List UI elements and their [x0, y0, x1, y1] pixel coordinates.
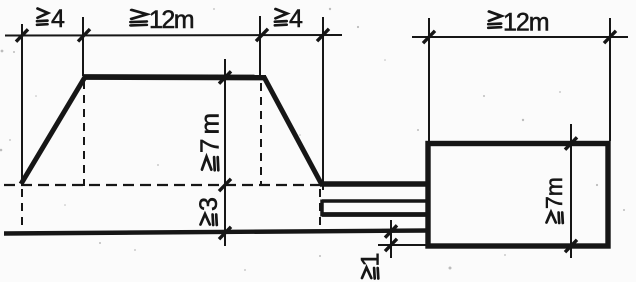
- svg-text:7m: 7m: [541, 177, 567, 209]
- label >=7m vertical building: [541, 177, 567, 223]
- tick at V1 crest: [219, 71, 231, 83]
- tick at D2/E5: [423, 31, 435, 43]
- dimension line D2 (top right): [412, 36, 628, 38]
- dashed projection line below E3: [260, 83, 262, 186]
- tick at V3 ground: [385, 225, 397, 237]
- tick at V2 floor: [565, 240, 577, 252]
- extension line E1 dashed lower part: [21, 189, 23, 229]
- label >=7m vertical left: [195, 109, 225, 170]
- svg-text:1: 1: [357, 253, 385, 267]
- svg-text:12m: 12m: [149, 6, 194, 34]
- svg-text:12m: 12m: [503, 9, 549, 37]
- label >=3 vertical: [195, 197, 223, 225]
- embankment left slope: [21, 77, 85, 184]
- ground line: [4, 231, 428, 234]
- dashed vertical below slope toe: [319, 189, 321, 227]
- tick at V1 ground level: [219, 179, 231, 191]
- extension line E4: [322, 17, 324, 190]
- vertical dimension line V2: [570, 124, 572, 258]
- vertical dimension line V3: [390, 220, 392, 258]
- label >=12m right building: [489, 9, 549, 37]
- extension line E5: [428, 18, 430, 141]
- extension line E1: [21, 24, 23, 184]
- tick at D1/E1: [16, 29, 28, 41]
- extension line E2: [82, 17, 84, 76]
- road lines left cap: [320, 200, 324, 217]
- embankment right slope: [264, 77, 322, 185]
- svg-text:7m: 7m: [195, 109, 225, 153]
- svg-text:3: 3: [195, 197, 223, 211]
- tick at D1/E2: [78, 29, 90, 41]
- tick at V1 ground: [219, 227, 231, 239]
- extension line E3: [259, 16, 261, 80]
- label >=4 left: [37, 5, 65, 33]
- dimension line D1 (top left): [5, 34, 342, 37]
- building rectangle: [428, 144, 608, 247]
- road line L1: [320, 181, 428, 186]
- dashed original ground level: [4, 184, 320, 186]
- label >=4 right: [275, 5, 303, 33]
- embankment crest: [83, 74, 266, 80]
- extension line E6: [609, 18, 611, 141]
- label >=12m left: [131, 6, 194, 34]
- tick at V2 roof: [565, 137, 577, 149]
- svg-text:4: 4: [51, 5, 65, 33]
- label >=1 vertical small: [357, 253, 385, 279]
- road line L2: [322, 199, 428, 203]
- svg-text:4: 4: [289, 5, 303, 33]
- tick at D1/E4: [317, 29, 329, 41]
- tick at D2/E6: [604, 31, 616, 43]
- dashed projection line below E2: [83, 81, 85, 186]
- road line L3: [322, 212, 428, 217]
- tick at D1/E3: [256, 29, 268, 41]
- building floor extension line: [378, 244, 427, 246]
- tick at V3 floor: [385, 239, 397, 251]
- vertical dimension line V1: [224, 59, 226, 246]
